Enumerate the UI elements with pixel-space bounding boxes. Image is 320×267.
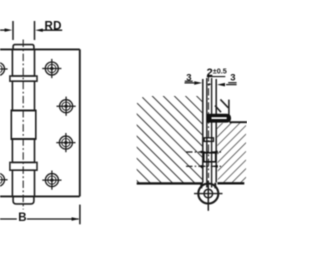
dimension 3 right label — [217, 73, 237, 87]
B dimension extension tick — [79, 205, 81, 225]
knuckle keyhole neck — [201, 183, 215, 189]
hinge leaf plate — [0, 49, 80, 196]
notch hatch fragment 2 — [215, 106, 221, 113]
hinge leaf bar cross-section — [207, 114, 230, 122]
svg-text:B: B — [18, 212, 26, 224]
hinge pin left line — [206, 78, 208, 188]
dimension 3 left label — [185, 72, 203, 84]
right block bottom edge — [217, 182, 244, 184]
RD dimension extension tick right — [34, 21, 36, 40]
slot right wall upper line — [215, 79, 217, 115]
pin centerline vertical — [208, 74, 210, 178]
knuckle outer circle — [198, 184, 218, 204]
screw hole C — [56, 133, 75, 152]
pin inner circle — [204, 189, 213, 198]
hinge pin right line — [211, 78, 213, 115]
screw hole B — [57, 97, 76, 116]
mortise outer step line — [228, 100, 230, 115]
bearing ring 2 — [10, 162, 37, 170]
screw hole D — [42, 171, 61, 190]
dimension 2±0.5 label — [207, 66, 227, 85]
knuckle collar small — [204, 138, 213, 142]
RD right arrow and leader — [35, 29, 62, 32]
right block hatching — [217, 123, 246, 182]
barrel top cap — [13, 45, 34, 50]
knuckle 5 — [12, 170, 34, 196]
knuckle joint line 3 — [11, 138, 37, 140]
hinge pin right line lower — [211, 122, 213, 187]
B dimension line — [0, 217, 79, 220]
knuckle crosshair horizontal — [194, 193, 223, 195]
knuckle 1 — [12, 49, 34, 76]
svg-text:2: 2 — [207, 67, 213, 79]
left wall block hatching — [137, 96, 202, 183]
knuckle 2 — [12, 81, 34, 110]
knuckle crosshair vertical — [207, 181, 209, 211]
slot right wall lower line — [215, 122, 217, 182]
RD left arrow — [0, 28, 12, 31]
knuckle ring — [204, 153, 216, 162]
partial hole upper at image edge — [0, 59, 8, 78]
pin centerline — [22, 40, 24, 210]
slot left wall line — [202, 79, 204, 183]
knuckle 3 (wide) — [11, 110, 36, 139]
partial hole lower at image edge — [0, 170, 8, 189]
lower joint dash-dot line with arrows — [186, 165, 223, 168]
barrel bottom cap — [13, 196, 34, 204]
svg-text:3: 3 — [230, 73, 235, 84]
RD dimension extension tick left — [12, 21, 14, 40]
knuckle 4 — [12, 139, 34, 162]
upper joint dash-dot line with arrows — [186, 151, 223, 154]
screw hole A — [42, 59, 61, 78]
notch hatch fragment 1 — [220, 99, 228, 107]
svg-text:RD: RD — [45, 20, 62, 32]
left block bottom edge — [137, 182, 203, 184]
knuckle joint line 2 — [11, 109, 37, 111]
svg-text:±0.5: ±0.5 — [213, 66, 227, 75]
right block top surface line — [230, 121, 248, 123]
bearing ring 1 — [10, 76, 37, 81]
